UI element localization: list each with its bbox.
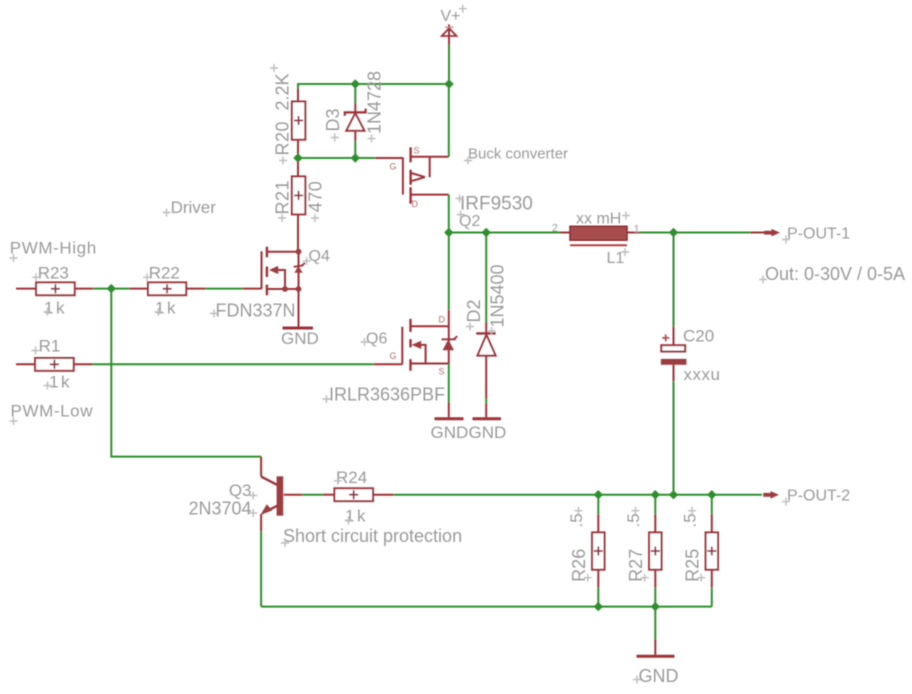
junction mid rail / C20 xyxy=(669,228,678,237)
junction rail / C20 xyxy=(669,490,678,499)
svg-text:R25: R25 xyxy=(683,549,703,582)
wire Q6 drain xyxy=(448,233,450,310)
svg-text:Out: 0-30V / 0-5A: Out: 0-30V / 0-5A xyxy=(765,264,905,284)
junction bottom rail / R26 xyxy=(594,602,603,611)
label .5 (R26) xyxy=(567,507,586,528)
svg-text:G: G xyxy=(390,162,397,172)
svg-text:R1: R1 xyxy=(39,337,61,356)
label .5 (R25) xyxy=(681,507,700,528)
svg-text:IRLR3636PBF: IRLR3636PBF xyxy=(329,385,445,405)
label D2 xyxy=(464,299,484,330)
label Q3 xyxy=(229,481,257,500)
inductor L1 xyxy=(560,226,640,245)
svg-text:xx mH: xx mH xyxy=(576,211,621,228)
label xx mH xyxy=(576,211,630,228)
resistor R25 xyxy=(706,495,718,607)
wire PWM-High drop to Q3 xyxy=(111,289,261,457)
svg-text:1N5400: 1N5400 xyxy=(488,264,508,327)
svg-text:PWM-High: PWM-High xyxy=(10,239,97,258)
wire R22 to Q4 gate xyxy=(205,288,242,290)
pin ground lead xyxy=(654,639,656,655)
resistor R26 xyxy=(592,495,604,607)
pin Q6 source to ground xyxy=(448,403,450,418)
wire Q3 emitter down xyxy=(260,531,262,607)
pin Q6 gate lead xyxy=(374,363,403,365)
svg-text:D2: D2 xyxy=(464,299,484,322)
svg-text:2N3704: 2N3704 xyxy=(188,499,251,519)
svg-text:.5: .5 xyxy=(624,513,643,527)
label 1k (R24) xyxy=(345,507,368,526)
net label P-OUT-2 xyxy=(782,488,850,506)
ground GND (Q4) xyxy=(281,328,319,348)
label R23 xyxy=(32,263,69,282)
transistor Q2 (IRF9530 P-MOSFET) xyxy=(390,146,449,210)
svg-text:P-OUT-1: P-OUT-1 xyxy=(787,226,850,243)
svg-text:R22: R22 xyxy=(149,263,180,282)
supply V+ xyxy=(442,25,457,46)
label R27 xyxy=(626,549,649,582)
resistor R1 xyxy=(35,358,92,371)
label 1k (R1) xyxy=(44,373,73,392)
wire C20 top xyxy=(673,233,675,327)
svg-text:Short circuit protection: Short circuit protection xyxy=(283,526,462,546)
svg-text:R24: R24 xyxy=(336,468,367,487)
diode D3 zener xyxy=(345,103,366,141)
svg-text:G: G xyxy=(390,351,397,361)
wire mid rail right xyxy=(640,232,750,234)
svg-text:Q3: Q3 xyxy=(229,481,252,500)
label IRLR3636PBF xyxy=(323,385,446,405)
svg-text:R20: R20 xyxy=(273,121,293,156)
svg-text:R27: R27 xyxy=(626,549,646,582)
svg-text:IRF9530: IRF9530 xyxy=(460,194,533,215)
svg-text:Q2: Q2 xyxy=(459,213,480,230)
net label PWM-High xyxy=(10,239,97,263)
label L1 xyxy=(607,248,630,267)
wire top rail xyxy=(298,84,449,89)
capacitor C20 xyxy=(661,327,687,381)
transistor Q3 (2N3704 NPN) xyxy=(260,457,302,531)
junction mid rail / Q2 drain xyxy=(444,228,453,237)
svg-text:GND: GND xyxy=(281,329,319,348)
op text Short circuit protection xyxy=(281,526,462,547)
wire C20 bottom xyxy=(673,381,675,494)
label Q6 xyxy=(361,331,388,348)
svg-text:.5: .5 xyxy=(567,513,586,527)
resistor R24 xyxy=(323,488,394,501)
ground GND (D2) xyxy=(469,419,507,442)
wire D2 anode xyxy=(485,399,487,404)
svg-text:2.2K: 2.2K xyxy=(273,73,293,110)
svg-text:C20: C20 xyxy=(683,327,714,346)
wire Q3 base to R24 xyxy=(302,494,323,496)
label Q2 xyxy=(457,211,481,231)
label .5 (R27) xyxy=(624,507,643,528)
svg-text:R21: R21 xyxy=(273,180,293,215)
label R21 xyxy=(273,180,293,222)
svg-text:P-OUT-2: P-OUT-2 xyxy=(787,488,850,505)
svg-text:1: 1 xyxy=(634,224,640,236)
label R25 xyxy=(683,549,706,582)
label 1k (R22) xyxy=(155,299,178,318)
svg-text:S: S xyxy=(414,146,420,156)
net label P-OUT-1 xyxy=(782,226,850,244)
svg-text:V+: V+ xyxy=(441,8,461,25)
wire to bottom ground xyxy=(654,607,656,639)
svg-text:R26: R26 xyxy=(569,549,589,582)
junction top rail / D3 xyxy=(351,79,360,88)
wire P-OUT-2 rail xyxy=(394,494,762,496)
label 1N4728 xyxy=(364,71,384,143)
label R26 xyxy=(569,549,592,582)
label 1k (R23) xyxy=(44,299,67,318)
wire D3 bottom xyxy=(354,141,356,158)
pad P-OUT-2 xyxy=(763,491,779,499)
wire V+ to top rail xyxy=(448,45,450,84)
resistor R27 xyxy=(649,495,661,607)
wire D3 top xyxy=(354,84,356,103)
wire D2 cathode xyxy=(485,233,487,323)
label 470 xyxy=(305,181,325,222)
svg-text:GND: GND xyxy=(639,666,679,686)
svg-text:xxxu: xxxu xyxy=(684,365,721,384)
svg-text:D: D xyxy=(439,315,446,325)
pin D2 to ground xyxy=(485,404,487,418)
svg-text:R23: R23 xyxy=(38,263,69,282)
label V+ xyxy=(441,5,467,25)
transistor Q6 (IRLR3636PBF N-MOSFET) xyxy=(390,310,458,377)
svg-text:1k: 1k xyxy=(49,373,72,392)
junction top rail / V+ xyxy=(444,79,453,88)
label IRF9530 xyxy=(456,194,533,215)
op text Driver xyxy=(163,198,217,217)
pin stub PWM-Low xyxy=(16,363,35,365)
wire Q2 source to V+ xyxy=(448,84,450,157)
pin stub PWM-High xyxy=(16,288,36,290)
label R1 xyxy=(32,337,61,356)
junction rail / R26 xyxy=(594,490,603,499)
junction gate rail / R20 R21 xyxy=(293,153,302,162)
net label PWM-Low xyxy=(10,402,94,426)
label R24 xyxy=(334,468,367,487)
pad P-OUT-1 xyxy=(750,229,780,237)
svg-text:.5: .5 xyxy=(681,513,700,527)
label 1N5400 xyxy=(488,264,508,335)
svg-text:470: 470 xyxy=(305,181,325,213)
svg-text:FDN337N: FDN337N xyxy=(216,301,296,321)
svg-text:GND: GND xyxy=(431,423,469,442)
resistor R22 xyxy=(129,282,205,295)
transistor Q4 (FDN337N N-MOSFET) xyxy=(243,247,305,327)
resistor R23 xyxy=(36,282,93,295)
wire Q6 source xyxy=(448,364,450,403)
resistor R21 xyxy=(292,162,305,252)
wire R1 to Q6 gate xyxy=(93,363,374,365)
resistor R20 xyxy=(292,89,305,155)
label Buck converter xyxy=(464,146,568,165)
wire Q2 drain to mid rail xyxy=(448,195,450,233)
wire mid rail left xyxy=(449,232,560,234)
svg-text:2: 2 xyxy=(552,223,558,235)
wire R23 to R22 xyxy=(93,288,129,290)
ground GND (Q6) xyxy=(431,419,469,442)
junction rail / R25 xyxy=(707,490,716,499)
junction bottom rail / R27 GND xyxy=(651,602,660,611)
junction mid rail / D2 xyxy=(482,228,491,237)
svg-text:D3: D3 xyxy=(323,108,343,131)
label R22 xyxy=(143,263,180,282)
label D3 xyxy=(323,108,343,141)
diode D2 xyxy=(476,322,495,399)
label 2.2K xyxy=(270,64,293,111)
label FDN337N xyxy=(210,301,296,321)
junction PWM-High / Q3 drop xyxy=(107,284,116,293)
label R20 xyxy=(273,121,293,165)
svg-text:Buck converter: Buck converter xyxy=(468,146,568,163)
svg-text:GND: GND xyxy=(469,423,507,442)
wire bottom rail xyxy=(261,606,712,608)
label 2N3704 xyxy=(188,499,257,519)
op text Out: 0-30V / 0-5A xyxy=(759,264,905,284)
svg-text:PWM-Low: PWM-Low xyxy=(11,402,94,421)
junction gate rail / D3 xyxy=(351,153,360,162)
junction rail / R27 xyxy=(651,490,660,499)
svg-text:S: S xyxy=(439,367,445,377)
ground GND (bottom) xyxy=(633,656,679,686)
svg-text:1N4728: 1N4728 xyxy=(364,71,384,134)
svg-text:Q4: Q4 xyxy=(309,248,330,265)
svg-text:D: D xyxy=(412,199,419,209)
wire gate rail xyxy=(298,157,375,159)
label Q4 xyxy=(303,248,330,265)
pin Q2 gate lead xyxy=(375,157,403,159)
svg-text:Driver: Driver xyxy=(171,198,217,217)
svg-text:Q6: Q6 xyxy=(366,331,387,348)
